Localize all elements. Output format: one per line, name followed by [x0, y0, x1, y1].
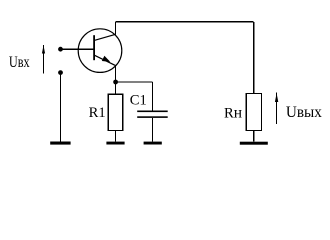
ground C1: [144, 142, 162, 145]
wire base lead: [61, 48, 94, 50]
wire input to ground: [60, 73, 62, 142]
wire Rn to ground: [253, 131, 255, 142]
node input bottom terminal: [58, 70, 63, 75]
capacitor C1: [137, 111, 168, 118]
svg-text:C1: C1: [130, 92, 147, 108]
wire R1 to ground: [115, 130, 117, 141]
svg-text:R1: R1: [89, 105, 106, 121]
ground Rn: [240, 142, 268, 145]
wire top rail: [116, 21, 254, 23]
ground input: [50, 142, 70, 145]
resistor R1: [108, 94, 123, 130]
svg-text:Uвых: Uвых: [286, 102, 322, 121]
wire right drop to Rn: [253, 22, 255, 94]
svg-text:Uвх: Uвх: [9, 52, 30, 71]
ground R1: [106, 142, 124, 145]
node emitter junction: [113, 80, 118, 85]
svg-text:Rн: Rн: [224, 105, 242, 122]
wire C1 top lead: [152, 82, 154, 111]
wire collector up: [115, 22, 117, 35]
wire emitter down: [115, 66, 117, 95]
transistor VT1: [78, 29, 122, 73]
resistor Rn: [246, 93, 261, 130]
wire junction to C1: [116, 81, 153, 83]
arrow Uvyx: [275, 93, 278, 124]
arrow Uvx: [42, 45, 45, 74]
wire C1 bottom lead: [152, 118, 154, 142]
node input top terminal: [58, 47, 63, 52]
